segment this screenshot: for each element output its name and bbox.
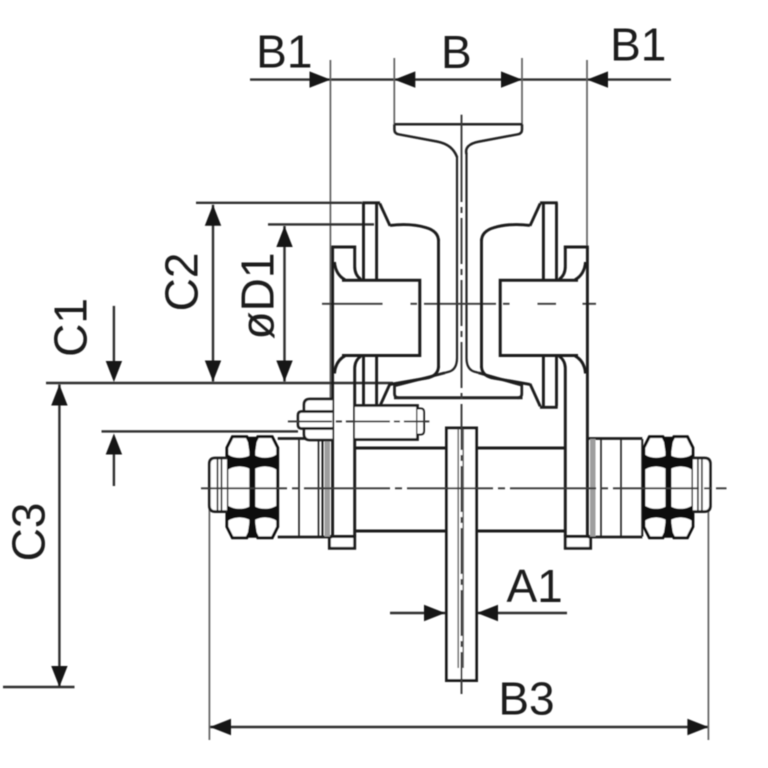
right threaded section bbox=[588, 439, 642, 538]
left wheel flange bbox=[362, 203, 390, 407]
left hub bbox=[342, 280, 420, 355]
axle between plates left bbox=[355, 448, 566, 531]
svg-text:C3: C3 bbox=[3, 503, 55, 562]
svg-text:A1: A1 bbox=[506, 560, 562, 612]
B3 extension line right bbox=[707, 460, 709, 740]
arrow B1 left bbox=[310, 71, 331, 87]
extension line x=330.4 bbox=[329, 60, 331, 438]
right nuts bbox=[643, 437, 670, 538]
svg-text:B1: B1 bbox=[610, 19, 666, 71]
hanging plate inner lines bbox=[457, 429, 459, 668]
extension line x=522 bbox=[521, 58, 523, 124]
svg-text:B: B bbox=[441, 26, 472, 78]
left threaded section bbox=[278, 439, 332, 538]
cross bolt body bbox=[355, 406, 418, 440]
svg-text:B1: B1 bbox=[256, 26, 312, 78]
right hub bbox=[500, 280, 578, 355]
reference line y=431.4 bbox=[102, 430, 299, 432]
oD1 reference line y=224.4 bbox=[268, 223, 374, 225]
svg-text:B3: B3 bbox=[498, 673, 554, 725]
dim line B1-B-B1 bbox=[250, 78, 671, 80]
arrow B right bbox=[501, 71, 522, 87]
right axle stub bbox=[693, 458, 711, 512]
right side plate bbox=[559, 247, 591, 548]
oD1 dimension line bbox=[283, 226, 285, 382]
rail bottom flange bbox=[394, 373, 523, 398]
C3 dimension line bbox=[58, 385, 60, 688]
hanging plate bbox=[447, 428, 477, 681]
wheel axis chain line y=303.8 bbox=[322, 303, 596, 305]
left wheel tread bbox=[390, 225, 439, 385]
svg-text:C1: C1 bbox=[45, 298, 97, 357]
reference line y=383 bbox=[46, 382, 393, 384]
A1 dimension bbox=[390, 612, 445, 614]
left washer band bbox=[325, 439, 331, 537]
right wheel tread bbox=[482, 225, 531, 385]
left nuts bbox=[226, 437, 254, 538]
svg-text:øD1: øD1 bbox=[232, 253, 284, 340]
extension line x=394.3 bbox=[393, 58, 395, 124]
B3 dimension line bbox=[210, 726, 708, 728]
right wheel flange bbox=[530, 203, 558, 407]
C2 dimension line bbox=[212, 205, 214, 382]
B3 extension line left bbox=[208, 461, 210, 740]
left axle stub bbox=[209, 458, 227, 512]
cross bolt end cap bbox=[418, 409, 425, 435]
right washer band bbox=[590, 439, 596, 537]
left side plate foot bbox=[329, 537, 354, 549]
arrow B1 right bbox=[587, 71, 608, 87]
rail top flange bbox=[394, 124, 522, 157]
rail center chain line bbox=[461, 115, 463, 156]
axle chain line y=488.3 bbox=[201, 487, 727, 489]
C2 reference line y=202.5 bbox=[196, 202, 362, 204]
right side plate foot bbox=[565, 537, 590, 549]
nut junction left bbox=[247, 437, 257, 538]
rail web bbox=[445, 156, 457, 373]
arrow B left bbox=[394, 71, 415, 87]
left side plate bbox=[329, 247, 361, 548]
cross bolt chain line bbox=[288, 420, 429, 422]
cross bolt head bbox=[298, 399, 332, 440]
svg-text:C2: C2 bbox=[156, 253, 208, 312]
C1 dimension line lower bbox=[113, 452, 115, 486]
reference line bottom left y=687 bbox=[3, 686, 75, 688]
nut junction right bbox=[663, 437, 673, 538]
extension line x=587 bbox=[586, 60, 588, 247]
C1 dimension line upper bbox=[113, 306, 115, 364]
